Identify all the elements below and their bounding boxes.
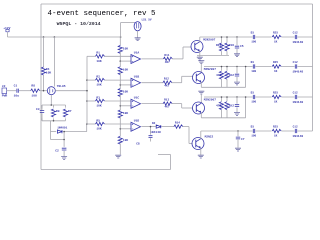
svg-text:1N4148: 1N4148 (150, 131, 161, 134)
svg-text:LS1 5V: LS1 5V (142, 19, 152, 22)
svg-text:R25: R25 (273, 61, 278, 64)
svg-text:C12: C12 (293, 61, 298, 64)
svg-text:R25: R25 (273, 31, 278, 34)
svg-text:C12: C12 (293, 125, 298, 128)
svg-text:10K: 10K (123, 69, 128, 72)
svg-text:R2: R2 (96, 76, 100, 79)
svg-text:R7: R7 (68, 110, 72, 113)
svg-text:1N4148: 1N4148 (292, 71, 303, 74)
svg-text:R5: R5 (96, 119, 100, 122)
svg-text:R8: R8 (31, 85, 35, 88)
svg-text:M2N2907: M2N2907 (204, 68, 216, 71)
svg-text:100: 100 (251, 101, 256, 104)
svg-text:R15: R15 (216, 44, 222, 47)
svg-text:1K: 1K (274, 101, 278, 104)
svg-text:78L05: 78L05 (57, 85, 66, 88)
svg-text:10K: 10K (96, 84, 101, 87)
svg-text:10K: 10K (96, 128, 101, 131)
svg-text:U1B: U1B (134, 76, 140, 79)
svg-text:100: 100 (31, 94, 37, 97)
svg-text:10K: 10K (96, 105, 101, 108)
svg-text:R12: R12 (164, 78, 169, 81)
svg-text:D3: D3 (251, 61, 255, 64)
svg-text:10K: 10K (123, 48, 128, 51)
svg-text:R1: R1 (96, 52, 100, 55)
svg-text:C3: C3 (36, 108, 40, 111)
svg-text:J2: J2 (2, 85, 6, 88)
svg-text:1K: 1K (274, 135, 278, 138)
svg-text:U1A: U1A (134, 52, 140, 55)
svg-text:10K: 10K (123, 91, 128, 94)
svg-text:M2N22: M2N22 (205, 136, 214, 139)
svg-text:1N4001: 1N4001 (57, 127, 67, 130)
svg-text:10K: 10K (96, 60, 101, 63)
svg-text:D3: D3 (251, 125, 255, 128)
svg-text:R3: R3 (96, 96, 100, 99)
svg-text:47R: 47R (216, 105, 222, 108)
svg-text:M2N2907: M2N2907 (204, 99, 216, 102)
svg-text:1N4148: 1N4148 (292, 135, 303, 138)
svg-text:10K: 10K (123, 139, 128, 142)
svg-text:W5PQL - 10/2014: W5PQL - 10/2014 (57, 21, 101, 27)
svg-text:C2: C2 (55, 149, 59, 152)
svg-text:1K2: 1K2 (229, 74, 235, 77)
svg-text:100: 100 (251, 135, 256, 138)
svg-text:100: 100 (251, 41, 256, 44)
svg-text:C1: C1 (14, 85, 18, 88)
svg-text:4K7: 4K7 (165, 106, 170, 109)
svg-text:1K2: 1K2 (229, 105, 235, 108)
svg-text:C12: C12 (293, 31, 298, 34)
svg-text:D3: D3 (251, 91, 255, 94)
svg-text:10K: 10K (123, 112, 128, 115)
svg-text:D3: D3 (251, 31, 255, 34)
svg-text:R25: R25 (273, 125, 278, 128)
svg-text:R9: R9 (56, 110, 60, 113)
svg-text:4-event sequencer, rev 5: 4-event sequencer, rev 5 (48, 10, 157, 18)
svg-text:1N4148: 1N4148 (292, 41, 303, 44)
svg-text:C8: C8 (136, 143, 140, 146)
svg-text:R25: R25 (273, 91, 278, 94)
svg-text:R16: R16 (229, 44, 235, 47)
svg-text:1K: 1K (274, 41, 278, 44)
svg-text:U1C: U1C (134, 96, 140, 99)
svg-text:PWR: PWR (2, 95, 8, 98)
svg-text:1K: 1K (274, 70, 278, 73)
svg-text:10u: 10u (14, 94, 20, 97)
svg-text:M2N2907: M2N2907 (203, 39, 215, 42)
svg-text:R14: R14 (175, 122, 180, 125)
svg-text:C7: C7 (241, 138, 245, 141)
svg-text:10K: 10K (46, 72, 52, 75)
svg-text:R11: R11 (164, 54, 169, 57)
svg-text:4K7: 4K7 (164, 85, 169, 88)
svg-text:D2: D2 (152, 122, 156, 125)
svg-text:100: 100 (251, 70, 256, 73)
svg-text:1N4148: 1N4148 (292, 101, 303, 104)
svg-text:R13: R13 (164, 99, 169, 102)
svg-text:47R: 47R (216, 74, 222, 77)
svg-text:C12: C12 (293, 91, 298, 94)
svg-text:+12V: +12V (3, 27, 10, 30)
svg-text:4K7: 4K7 (165, 61, 170, 64)
svg-text:C5: C5 (240, 45, 244, 48)
svg-text:U1D: U1D (134, 119, 140, 122)
